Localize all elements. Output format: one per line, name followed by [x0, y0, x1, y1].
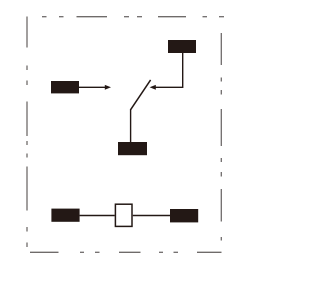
wire coil left lead — [80, 215, 115, 217]
case outline top edge (phantom line) — [42, 16, 224, 18]
wire NC lead (down then left) — [153, 53, 183, 87]
arrowhead pointing right — [105, 85, 111, 90]
case outline bottom edge (phantom line) — [30, 251, 222, 253]
arrowhead pointing left — [150, 85, 156, 90]
terminal armature (bottom-middle solder lug) — [118, 142, 147, 155]
coil K1 (rectangle symbol) — [115, 204, 132, 226]
terminal coil left solder lug — [51, 209, 79, 222]
case outline right edge (phantom line) — [220, 33, 222, 241]
terminal COM (top-left solder lug) — [51, 81, 79, 93]
wire coil right lead — [133, 215, 170, 217]
case outline left edge (phantom line) — [26, 17, 28, 248]
movable contact blade — [131, 80, 151, 110]
terminal NC (top-right solder lug) — [168, 40, 196, 53]
wire armature to terminal — [130, 109, 132, 143]
terminal coil right solder lug — [170, 209, 198, 222]
wire COM lead with right arrow — [79, 86, 106, 88]
